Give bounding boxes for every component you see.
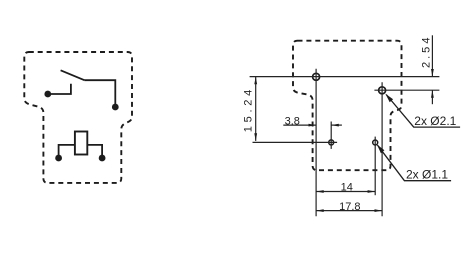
dimension 3.8 left arrow (points right): [309, 124, 317, 127]
dimension 15.24 top arrow: [254, 77, 257, 85]
coil left terminal (dot): [55, 155, 62, 162]
svg-text:3.8: 3.8: [285, 115, 300, 127]
coil body: [75, 132, 87, 155]
dimension 3.8 right arrow (points left): [331, 124, 339, 127]
hole H3 (1.1 dia, center): [329, 140, 334, 145]
dimension 2.54 line: [431, 35, 433, 76]
dimension 3.8 tail lines: [283, 124, 316, 126]
hole H2 (2.1 dia, upper right): [379, 87, 386, 94]
dimension 2.54 upper arrow (points down): [431, 69, 434, 77]
switch movable lever: [61, 70, 85, 80]
switch right terminal (dot): [112, 104, 119, 111]
column mark through H3: [330, 122, 332, 149]
hole H1 (2.1 dia, top left): [313, 73, 320, 80]
dimension 17.8 right arrow: [375, 209, 383, 212]
dimension 2.54 lower arrow (points up): [431, 90, 434, 98]
PCB footprint outline (dashed): [293, 41, 402, 171]
dimension 17.8 left arrow: [316, 209, 324, 212]
switch common terminal (left dot): [44, 91, 51, 98]
dimension 17.8 line: [316, 210, 382, 212]
svg-text:14: 14: [341, 182, 353, 194]
leader for holes 2x dia 2.1: [386, 95, 460, 128]
dimension 14 left arrow: [316, 190, 324, 193]
coil left lead: [59, 145, 75, 158]
coil right lead: [87, 145, 102, 158]
column line through H2 (extension to 17.8 dim): [381, 82, 383, 216]
column line through H4 (extension to 14 dim): [374, 137, 376, 196]
centerline row 2 (through hole H2): [374, 89, 439, 91]
switch fixed contact wire: [48, 84, 71, 94]
dimension 15.24 line: [255, 77, 257, 141]
dimension 15.24 bottom arrow: [254, 133, 257, 141]
svg-text:17.8: 17.8: [339, 201, 360, 213]
svg-text:2x Ø1.1: 2x Ø1.1: [406, 167, 448, 181]
centerline row 3 (through hole H3): [253, 141, 338, 143]
coil right terminal (dot): [99, 155, 106, 162]
dimension 14 line: [316, 191, 375, 193]
centerline row 1 (through hole H1): [250, 76, 440, 78]
relay case outline (dashed), schematic view: [24, 52, 132, 183]
hole H4 (1.1 dia, right): [373, 140, 378, 145]
svg-text:2.54: 2.54: [420, 38, 432, 69]
svg-text:2x Ø2.1: 2x Ø2.1: [414, 114, 456, 128]
dimension 14 right arrow: [368, 190, 376, 193]
column line through H1 (extension to 14/17.8 dims): [315, 69, 317, 217]
leader arrowhead (2.1): [385, 94, 393, 102]
leader arrowhead (1.1): [377, 145, 385, 154]
switch right terminal wire: [84, 80, 115, 107]
leader for holes 2x dia 1.1: [377, 145, 451, 181]
